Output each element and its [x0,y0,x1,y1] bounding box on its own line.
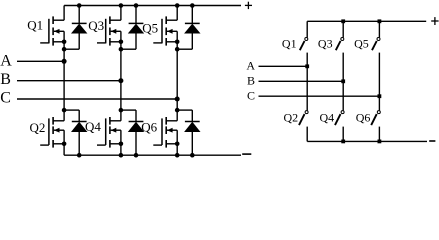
wire: DC+ top rail (right circuit) [307,20,426,22]
diode D6 freewheel across Q6 [175,108,201,158]
label Q2 [30,120,46,135]
svg-text:C: C [247,88,255,102]
node: + rail junction switch leg 2 (right) [341,19,345,23]
wire: leg 2 drain riser to + rail [120,6,122,21]
wire: leg 2 source drop to - rail [120,144,122,155]
label Q2 (right circuit) [284,111,299,125]
svg-text:Q6: Q6 [356,111,371,125]
node phase C junction (left circuit) [175,97,180,102]
node: - rail junction switch leg 3 (right) [378,140,382,144]
label Q4 (right circuit) [320,111,335,125]
wire: DC- bottom rail (left circuit) [64,154,241,156]
diode D3 freewheel across Q3 [119,3,145,51]
wire: phase C line to leg 3 [17,98,177,100]
wire: phase A line to leg 1 [17,60,64,62]
wire: phase A line to switch leg 1 (right) [259,65,308,67]
node: - rail junction switch leg 2 (right) [341,140,345,144]
wire: leg 2 midsection (Q3 source to Q4 drain) [120,42,122,121]
label Q1 [27,18,43,33]
svg-text:Q2: Q2 [284,111,299,125]
label: - terminal (right circuit) [429,140,435,142]
label phase C (left circuit) [0,89,11,106]
node: - rail junction leg 2 [119,153,124,158]
wire: DC- bottom rail (right circuit) [307,140,427,142]
diode D5 freewheel across Q5 [175,3,201,51]
label Q4 [85,119,101,134]
wire: leg 3 midsection (Q5 source to Q6 drain) [176,42,178,121]
label Q3 (right circuit) [318,36,333,50]
svg-text:Q3: Q3 [318,36,333,50]
node phase B junction (right circuit) [341,79,345,83]
svg-text:B: B [0,71,11,88]
label phase A (right circuit) [246,59,255,73]
node phase B junction (left circuit) [118,78,123,83]
svg-text:Q2: Q2 [30,120,46,135]
transistor Q2 (lower MOSFET leg 1) [40,117,66,148]
node phase A junction (right circuit) [305,64,309,68]
svg-text:Q4: Q4 [320,111,335,125]
svg-text:Q5: Q5 [142,21,158,36]
label phase C (right circuit) [247,88,255,102]
diode D4 freewheel across Q4 [119,108,145,158]
label Q1 (right circuit) [282,36,297,50]
wire: leg 1 drain riser to + rail [63,6,65,21]
node: + rail junction leg 3 [175,3,180,8]
svg-text:Q5: Q5 [354,36,369,50]
label: + terminal (right circuit) [431,17,438,25]
label phase B (left circuit) [0,71,11,88]
label Q3 [88,18,104,33]
transistor Q6 (lower MOSFET leg 3) [153,117,179,148]
switch Q2 (lower, right circuit) [299,111,308,142]
transistor Q5 (upper MOSFET leg 3) [153,16,179,45]
wire: phase B line to leg 2 [17,80,121,82]
wire: phase C line to switch leg 3 (right) [259,95,380,97]
switch Q1 (upper, right circuit) [300,21,308,110]
switch Q4 (lower, right circuit) [335,111,344,142]
svg-text:Q4: Q4 [85,119,101,134]
diode D1 freewheel across Q1 [62,3,88,51]
label Q5 [142,21,158,36]
transistor Q3 (upper MOSFET leg 2) [97,16,123,45]
transistor Q1 (upper MOSFET leg 1) [40,16,66,45]
switch Q5 (upper, right circuit) [372,21,380,110]
diode D2 freewheel across Q2 [62,108,88,158]
svg-text:Q3: Q3 [88,18,104,33]
node: + rail junction leg 2 [119,3,124,8]
transistor Q4 (lower MOSFET leg 2) [97,117,123,148]
node: + rail junction switch leg 3 (right) [378,19,382,23]
wire: phase B line to switch leg 2 (right) [259,80,344,82]
wire: DC+ top rail (left circuit) [64,5,241,7]
wire: leg 3 drain riser to + rail [176,6,178,21]
svg-text:A: A [0,53,12,70]
wire: leg 1 source drop to - rail [63,144,65,155]
label: - terminal (left circuit) [242,153,251,155]
node: - rail junction leg 3 [175,153,180,158]
label phase A (left circuit) [0,53,12,70]
label: + terminal (left circuit) [245,2,252,9]
label Q5 (right circuit) [354,36,369,50]
switch Q3 (upper, right circuit) [336,21,344,110]
node phase A junction (left circuit) [62,59,67,64]
label Q6 [141,120,157,135]
wire: leg 1 midsection (Q1 source to Q2 drain) [63,42,65,121]
svg-text:C: C [0,89,11,106]
label phase B (right circuit) [247,74,255,88]
svg-text:B: B [247,74,255,88]
wire: leg 3 source drop to - rail [176,144,178,155]
label Q6 (right circuit) [356,111,371,125]
svg-text:Q1: Q1 [27,18,43,33]
svg-text:Q1: Q1 [282,36,297,50]
node phase C junction (right circuit) [378,94,382,98]
svg-text:Q6: Q6 [141,120,157,135]
switch Q6 (lower, right circuit) [371,111,380,142]
svg-text:A: A [246,59,255,73]
